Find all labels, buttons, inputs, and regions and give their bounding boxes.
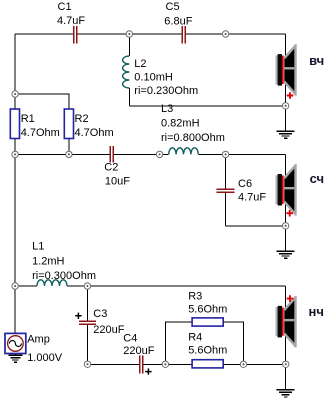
svg-text:R3: R3	[188, 291, 202, 303]
svg-text:вч: вч	[309, 53, 324, 68]
svg-text:L3: L3	[161, 103, 173, 115]
svg-text:1.000V: 1.000V	[27, 352, 63, 364]
svg-text:R2: R2	[75, 113, 89, 125]
svg-text:4.7Ohm: 4.7Ohm	[75, 127, 114, 139]
svg-text:Amp: Amp	[27, 334, 50, 346]
svg-text:C4: C4	[123, 333, 137, 345]
svg-text:C6: C6	[238, 178, 252, 190]
svg-text:L1: L1	[32, 241, 44, 253]
svg-text:сч: сч	[310, 171, 324, 186]
svg-text:4.7uF: 4.7uF	[238, 192, 266, 204]
svg-text:5.6Ohm: 5.6Ohm	[188, 345, 227, 357]
svg-text:6.8uF: 6.8uF	[164, 16, 192, 28]
svg-text:C3: C3	[93, 308, 107, 320]
svg-text:10uF: 10uF	[105, 176, 130, 188]
svg-text:C2: C2	[104, 162, 118, 174]
svg-text:0.82mH: 0.82mH	[161, 118, 200, 130]
svg-text:220uF: 220uF	[93, 324, 124, 336]
svg-text:0.10mH: 0.10mH	[134, 72, 173, 84]
svg-text:5.6Ohm: 5.6Ohm	[188, 304, 227, 316]
svg-text:220uF: 220uF	[123, 345, 154, 357]
svg-text:4.7uF: 4.7uF	[57, 15, 85, 27]
svg-text:нч: нч	[309, 304, 324, 319]
svg-text:ri=0.300Ohm: ri=0.300Ohm	[32, 270, 96, 282]
svg-text:C1: C1	[58, 1, 72, 13]
svg-text:R4: R4	[188, 332, 202, 344]
svg-text:1.2mH: 1.2mH	[32, 256, 64, 268]
svg-text:4.7Ohm: 4.7Ohm	[21, 127, 60, 139]
svg-text:ri=0.800Ohm: ri=0.800Ohm	[161, 132, 225, 144]
svg-text:C5: C5	[166, 1, 180, 13]
svg-text:R1: R1	[21, 113, 35, 125]
svg-text:L2: L2	[134, 58, 146, 70]
svg-text:ri=0.230Ohm: ri=0.230Ohm	[134, 85, 198, 97]
